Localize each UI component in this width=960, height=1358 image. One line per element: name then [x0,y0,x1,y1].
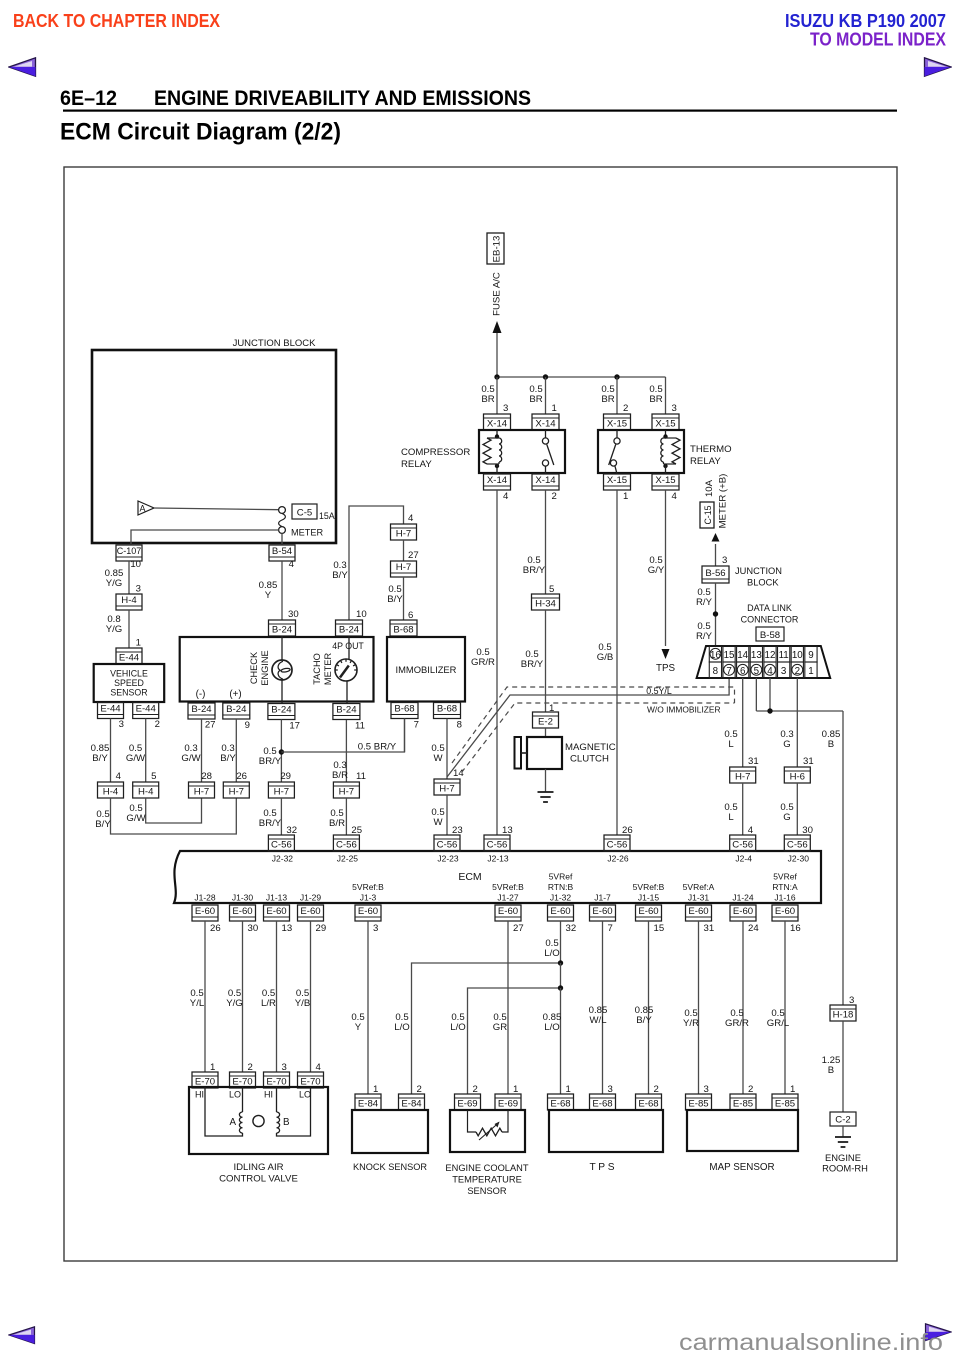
wire 0.3 B/R [345,720,347,782]
connector E-60 J1-3 [355,905,381,921]
pin 1 label E-70 [210,1062,215,1073]
label 0.5 BR 1 [481,384,494,405]
connector name box B-58 [756,627,784,641]
svg-text:E-68: E-68 [592,1098,612,1109]
label J1-29 [300,893,322,903]
svg-text:1: 1 [210,1062,215,1073]
pin 29 label H-7 [280,771,291,782]
connector X-14 pin 3 [484,414,511,430]
pin 25 label C-56 J2-25 [351,825,362,836]
node A triangle [138,501,154,515]
svg-text:J1-15: J1-15 [638,893,660,903]
connector B-56 [702,566,729,583]
thermo relay box [598,430,684,473]
svg-text:J2-30: J2-30 [788,854,810,864]
svg-text:E-60: E-60 [266,906,286,917]
pin 27 label B-24 [205,720,216,731]
svg-text:IDLING AIR: IDLING AIR [233,1162,283,1173]
wire 0.5 Y/L w/o immobilizer [447,678,729,777]
svg-text:B/R: B/R [332,770,348,781]
wire DLC pin2 0.3 G [796,678,798,767]
node L/O junction 2 [558,985,563,990]
svg-text:A: A [229,1117,236,1128]
label MAGNETIC CLUTCH [565,742,616,765]
label 0.5 Y/R [683,1008,699,1029]
svg-text:5VRef:B: 5VRef:B [633,882,665,892]
connector C-56 J2-30 [784,835,810,851]
svg-text:E-70: E-70 [300,1076,320,1087]
svg-text:E-60: E-60 [775,906,795,917]
headings [0,80,960,150]
svg-text:C-56: C-56 [787,839,808,850]
idling air control valve box [189,1087,328,1154]
svg-text:J1-27: J1-27 [497,893,519,903]
label 0.85 Y [259,580,278,601]
svg-text:SENSOR: SENSOR [110,688,147,698]
pin 29 label E-60 J1-29 [316,923,327,934]
svg-text:B-24: B-24 [226,704,247,715]
pin 5 label H-4 [151,771,156,782]
thermo relay switch [609,430,620,474]
svg-text:3: 3 [503,403,508,414]
pin 1 label E-69 [513,1084,518,1095]
svg-text:26: 26 [622,825,633,836]
svg-text:2: 2 [417,1084,422,1095]
svg-text:2: 2 [248,1062,253,1073]
label 0.5 L upper [724,729,737,750]
svg-text:BR/Y: BR/Y [259,756,282,767]
svg-text:ECM: ECM [458,871,481,883]
immobilizer box [387,637,465,702]
label J1-31 [683,882,715,903]
label plus [229,689,241,700]
label J1-27 [492,882,524,903]
wire 0.85 L/O tps [560,988,562,1094]
label minus [196,689,206,700]
svg-text:30: 30 [248,923,259,934]
svg-text:E-69: E-69 [457,1098,477,1109]
svg-text:4: 4 [408,513,414,524]
svg-text:G/W: G/W [126,813,146,824]
svg-text:LO: LO [229,1090,241,1100]
svg-text:BR: BR [649,394,662,405]
svg-text:4: 4 [316,1062,322,1073]
svg-text:B-54: B-54 [272,546,293,557]
svg-text:11: 11 [779,650,789,661]
label 0.5 B/R ecm [329,808,345,829]
connector E-84 pin 1 [355,1094,381,1110]
pin 3 label E-70 [282,1062,287,1073]
magnetic clutch [515,737,563,769]
pin 4 label C-56 J2-4 [748,825,754,836]
svg-text:ENGINE: ENGINE [825,1152,861,1163]
svg-text:GR/R: GR/R [471,657,495,668]
nav arrow bottom left [8,1326,36,1345]
wire 0.5 G/Y [665,490,667,646]
connector B-24 pin 10 [336,620,363,636]
svg-text:Y: Y [265,590,272,601]
svg-text:CONNECTOR: CONNECTOR [741,615,799,625]
ECM band outline [174,851,821,903]
pin 1 label E-2 [549,703,554,714]
connector E-68 pin 2 [636,1094,662,1110]
wire 0.5 BR/Y to ecm [280,798,282,835]
label Y/B iacv [295,988,310,1009]
connector E-84 pin 2 [399,1094,425,1110]
pin 14 label H-7 [453,768,464,779]
svg-text:B/Y: B/Y [220,753,236,764]
connector C-56 J2-13 [484,835,510,851]
connector H-7 pin 11 [333,782,359,798]
connector E-69 pin 2 [455,1094,481,1110]
svg-text:J1-3: J1-3 [360,893,377,903]
connector X-15 pin 2 [604,414,631,430]
label 0.85 B [822,729,841,750]
svg-text:27: 27 [513,923,524,934]
label ENGINE COOLANT TEMPERATURE SENSOR [445,1163,528,1196]
svg-text:5VRef:B: 5VRef:B [492,882,524,892]
pin 3 label X-14 [503,403,508,414]
wire 0.5 Y/L iacv [204,921,206,1072]
thermo relay coil [661,430,680,474]
svg-text:10A: 10A [704,479,715,497]
svg-text:H-7: H-7 [274,786,289,797]
engine coolant temp sensor box [450,1110,525,1152]
svg-text:MAP SENSOR: MAP SENSOR [709,1162,774,1173]
svg-text:W: W [433,817,443,828]
dashed boundary w/o immobilizer upper [452,687,735,763]
svg-text:31: 31 [748,756,759,767]
svg-text:X-14: X-14 [487,418,508,429]
label J1-13 [266,893,288,903]
iacv rotor circle [253,1115,264,1126]
connector E-68 pin 3 [590,1094,616,1110]
label J1-30 [232,893,254,903]
label KNOCK SENSOR [353,1162,427,1172]
svg-text:C-56: C-56 [487,839,508,850]
label Y/G iacv [226,988,243,1009]
svg-text:IMMOBILIZER: IMMOBILIZER [396,664,457,675]
label LO 1 [229,1090,241,1100]
connector H-7 pin 14 [434,779,460,795]
connector E-44 pin 3 [98,703,124,719]
svg-text:J1-30: J1-30 [232,893,254,903]
svg-text:J1-31: J1-31 [688,893,710,903]
label 0.85 L/O tps [543,1012,562,1033]
label 0.5 GR/R [471,647,495,668]
svg-text:HI: HI [195,1090,204,1100]
wire 0.3 G/W [201,719,203,782]
label COMPRESSOR RELAY [401,447,470,470]
svg-text:W: W [433,753,443,764]
svg-text:16: 16 [790,923,801,934]
svg-text:L/O: L/O [394,1022,409,1033]
svg-text:B-24: B-24 [191,704,212,715]
pin 3 label E-85 [704,1084,709,1095]
connector H-6 pin 31 [784,767,810,783]
svg-text:E-44: E-44 [119,652,140,663]
svg-text:3: 3 [608,1084,613,1095]
svg-text:FUSE A/C: FUSE A/C [492,272,503,316]
label METER +B [718,474,729,529]
pin 27 label E-60 J1-27 [513,923,524,934]
svg-text:Y/R: Y/R [683,1018,699,1029]
svg-text:Y/L: Y/L [190,998,205,1009]
svg-text:11: 11 [355,721,365,732]
connector X-14 pin 2 [532,474,559,490]
label 0.5 BR 2 [529,384,542,405]
svg-text:GR/R: GR/R [725,1018,749,1029]
pin 4 label H-7 pair [408,513,414,524]
label J2-13 [487,854,509,864]
label 0.5 R/Y lower [696,621,713,642]
svg-text:10: 10 [356,609,367,620]
wire relay supply bus [497,376,666,378]
pin 17 label B-24 [289,721,300,732]
svg-text:C-56: C-56 [607,839,628,850]
label 15A [319,511,335,521]
label J2-32 [272,854,294,864]
connector E-44 pin 2 [133,703,159,719]
svg-text:CHECK: CHECK [249,651,259,684]
svg-text:11: 11 [356,771,366,782]
label ENGINE ROOM-RH [822,1152,868,1174]
pin 2 label E-70 [248,1062,253,1073]
wire 0.5 BR/Y clutch upper [545,490,547,594]
label IMMOBILIZER [396,664,457,675]
svg-text:TPS: TPS [656,663,676,674]
wire fuse to B-54 [281,533,283,545]
svg-text:4: 4 [289,559,295,570]
pin 1 label E-85 [790,1084,795,1095]
svg-text:LO: LO [299,1090,311,1100]
pin 1 label X-15 [623,491,628,502]
connector H-7 pin 29 [268,782,294,798]
svg-text:E-85: E-85 [733,1098,753,1109]
label HI 2 [264,1090,273,1100]
label 0.5 BR 3 [601,384,614,405]
svg-text:E-60: E-60 [195,906,215,917]
wire DLC pin4 junction [769,678,771,711]
label J1-28 [194,893,216,903]
label TPS [589,1162,614,1173]
node bus junction 2 [543,374,548,379]
connector B-68 pin 6 [390,620,417,636]
svg-text:B-68: B-68 [393,624,413,635]
connector C-56 J2-4 [730,835,756,851]
pin 5 label H-34 [549,584,554,595]
svg-text:J2-23: J2-23 [437,854,459,864]
pin 2 label X-14 [552,491,557,502]
pin 3 label E-60 J1-3 [373,923,378,934]
svg-text:B-24: B-24 [336,704,357,715]
pin 2 label E-84 [417,1084,422,1095]
svg-text:E-60: E-60 [550,906,570,917]
svg-text:KNOCK SENSOR: KNOCK SENSOR [353,1162,427,1172]
label Y/L iacv [190,988,205,1009]
label 0.5 BR 4 [649,384,662,405]
svg-text:L/O: L/O [450,1022,465,1033]
svg-text:RTN:B: RTN:B [548,882,574,892]
connector X-15 pin 3 [652,414,679,430]
connector E-60 J1-27 [495,905,521,921]
label J1-32 [548,872,574,903]
connector E-60 J1-13 [264,905,290,921]
arrow meter +B [712,533,720,542]
label MAP SENSOR [709,1162,774,1173]
svg-text:H-7: H-7 [339,786,354,797]
node bus junction 1 [494,374,499,379]
label J1-7 [594,893,611,903]
connector H-7 pin 26 [223,782,249,798]
svg-text:J1-28: J1-28 [194,893,216,903]
connector E-2 [533,712,559,728]
svg-text:E-70: E-70 [266,1076,286,1087]
svg-text:15A: 15A [319,511,335,521]
pin 2 label E-69 [473,1084,478,1095]
svg-text:E-84: E-84 [401,1098,422,1109]
svg-text:H-4: H-4 [103,786,119,797]
connector X-15 pin 4 [652,474,679,490]
svg-text:W/L: W/L [589,1015,607,1026]
pin 15 label E-60 J1-15 [654,923,665,934]
svg-text:CLUTCH: CLUTCH [570,754,609,765]
svg-text:E-85: E-85 [775,1098,795,1109]
iacv coil A [205,1087,243,1136]
reference box C-15 [700,502,714,528]
svg-text:METER: METER [323,653,333,686]
svg-text:E-68: E-68 [550,1098,570,1109]
svg-text:32: 32 [566,923,577,934]
wire B-68 7 down [404,719,406,753]
svg-text:6: 6 [408,610,413,621]
wire 0.5 B/Y link [111,798,237,834]
pin 3 label E-68 [608,1084,613,1095]
net reference EB-13 [487,233,504,264]
connector B-68 pin 7 [391,703,418,719]
svg-text:J2-13: J2-13 [487,854,509,864]
svg-text:1: 1 [136,638,141,649]
pin 26 label E-60 J1-28 [210,923,221,934]
node bus junction 3 [614,374,619,379]
label 0.5 BR/Y check [259,746,282,767]
svg-text:BR: BR [529,394,542,405]
svg-text:13: 13 [282,923,293,934]
svg-text:(+): (+) [229,689,241,700]
label DATA LINK CONNECTOR [741,603,799,625]
svg-text:H-18: H-18 [833,1009,854,1020]
svg-text:C-56: C-56 [437,839,458,850]
pin 4 label E-70 [316,1062,322,1073]
wire 0.5 G/W link [146,798,202,823]
pin 1 label E-84 [373,1084,378,1095]
label L/R iacv [261,988,276,1009]
connector B-24 pin 30 [269,620,296,636]
svg-text:H-7: H-7 [439,783,454,794]
compressor relay box [479,430,565,473]
svg-text:23: 23 [452,825,463,836]
fuse name box C-5 [292,504,317,519]
label J1-15 [633,882,665,903]
pin 24 label E-60 J1-24 [748,923,759,934]
connector H-7 pin 28 [189,782,215,798]
label TPS [656,663,676,674]
svg-text:A: A [140,504,146,514]
svg-text:J2-25: J2-25 [337,854,359,864]
svg-text:B-56: B-56 [705,568,725,579]
label TACHO METER [312,653,333,686]
wire 0.5 R/Y [715,583,717,646]
pin 4 label H-4 [116,771,122,782]
svg-text:17: 17 [289,721,300,732]
svg-text:BLOCK: BLOCK [747,578,779,588]
wire C-2 to ground [842,1126,844,1137]
svg-text:(-): (-) [196,689,206,700]
connector E-70 pin 3 [264,1072,290,1088]
label 0.3 B/Y [220,743,236,764]
label 0.5 B/Y link [95,809,111,830]
svg-text:3: 3 [119,719,124,730]
label J1-3 [352,882,384,903]
label J2-25 [337,854,359,864]
wire clutch to ground [545,769,547,792]
wire 0.3 B/Y [235,719,237,782]
label J1-16 [772,872,798,903]
connector E-60 J1-16 [772,905,798,921]
svg-text:H-4: H-4 [121,595,137,606]
svg-text:BR: BR [481,394,494,405]
svg-text:X-15: X-15 [607,418,627,429]
svg-text:G/W: G/W [181,753,201,764]
pin 30 label E-60 J1-30 [248,923,259,934]
svg-text:B/Y: B/Y [332,570,348,581]
svg-text:2: 2 [155,719,160,730]
wire 0.3 B/Y tacho feed [349,506,404,620]
svg-text:14: 14 [453,768,464,779]
svg-text:E-2: E-2 [538,716,553,727]
connector H-4 pin 5 [133,782,159,798]
pin 31 label H-6 [803,756,814,767]
svg-text:B-24: B-24 [271,704,292,715]
svg-text:C-107: C-107 [117,546,142,556]
svg-text:JUNCTION BLOCK: JUNCTION BLOCK [233,338,317,349]
svg-text:Y/B: Y/B [295,998,310,1009]
ect thermistor [468,1110,509,1140]
watermark [0,1326,960,1358]
svg-text:2: 2 [748,1084,753,1095]
label CHECK ENGINE [249,650,270,685]
svg-text:1: 1 [373,1084,378,1095]
wire H-7 4 to 27 [403,540,405,561]
label IDLING AIR CONTROL VALVE [219,1162,298,1185]
svg-text:MAGNETIC: MAGNETIC [565,742,616,753]
label 0.5 R/Y upper [696,587,713,608]
svg-text:25: 25 [351,825,362,836]
label 0.5 GR ect [493,1012,507,1033]
pin 1 label E-68 [566,1084,571,1095]
connector H-18 [830,1005,856,1021]
svg-text:E-70: E-70 [232,1076,252,1087]
svg-text:9: 9 [245,720,250,731]
data link connector B-58 [697,646,831,678]
svg-text:E-68: E-68 [638,1098,658,1109]
wire 1.25 B [842,1021,844,1112]
wire 0.5 L lower [742,783,744,835]
label 0.85 Y/G [105,568,124,589]
pin 6 label B-68 [408,610,413,621]
label METER [291,528,324,538]
pin 3 label H-18 [849,995,854,1006]
